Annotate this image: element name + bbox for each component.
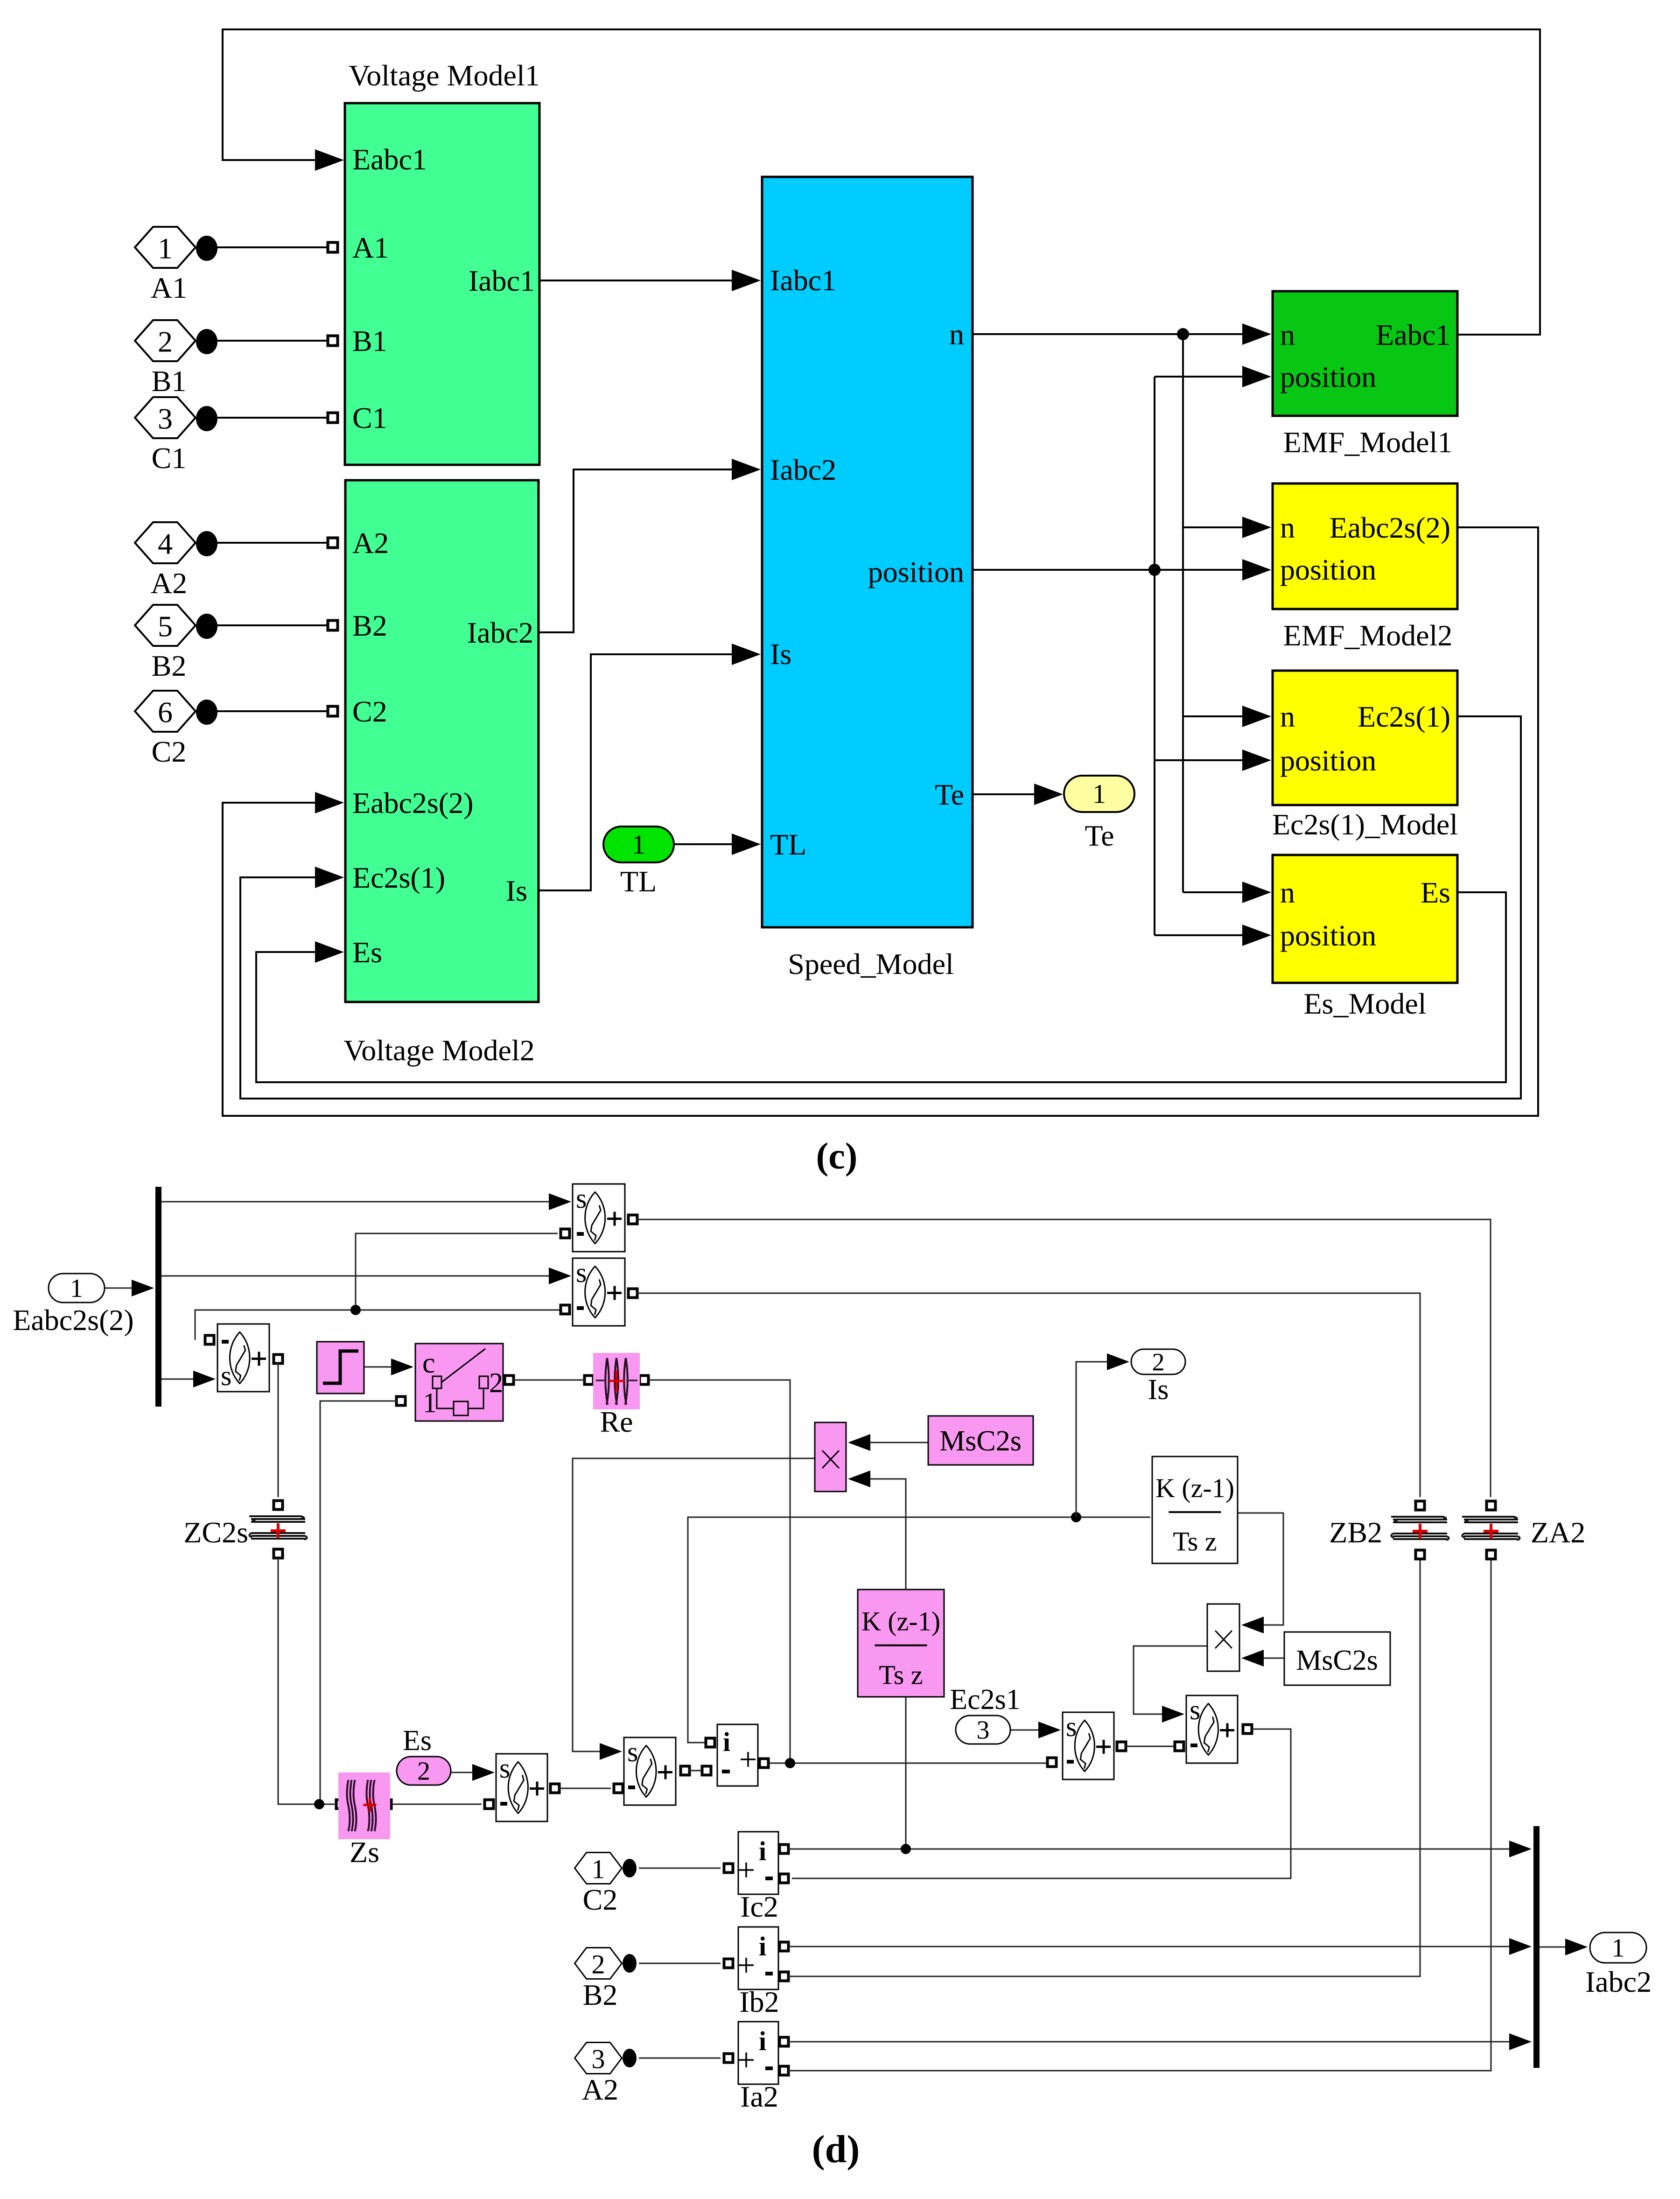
svg-text:Es: Es	[403, 1725, 432, 1757]
svg-text:Ic2: Ic2	[740, 1890, 778, 1923]
svg-text:Ec2s(1): Ec2s(1)	[1358, 700, 1450, 733]
svg-text:ZA2: ZA2	[1531, 1516, 1585, 1549]
wire: branch up to Is outport oval	[1076, 1362, 1110, 1517]
wire: Ia2 current to mux	[780, 2038, 789, 2046]
inport 2 (B1) hexagon	[135, 320, 196, 361]
svg-text:Iabc2: Iabc2	[770, 453, 836, 486]
svg-text:4: 4	[158, 527, 173, 560]
svg-text:TL: TL	[770, 828, 806, 861]
wire: ZC2s bottom to Zs node	[274, 1549, 283, 1558]
source oval: TL (input 1)	[603, 826, 674, 862]
wire: sum S4 output to sum S5 minus	[1117, 1742, 1126, 1751]
svg-text:Is: Is	[1148, 1374, 1169, 1406]
wire: i block current output to Is outport and white K block	[688, 1517, 1150, 1743]
svg-text:Es_Model: Es_Model	[1303, 987, 1426, 1020]
wire: Step to Switch control input	[364, 1366, 394, 1368]
svg-text:3: 3	[592, 2044, 605, 2074]
svg-text:1: 1	[423, 1387, 437, 1418]
wire: Re output down to current node	[640, 1376, 649, 1385]
wire: Ec2s(1) feedback from Ec2s(1)_Model to Voltage Model2	[240, 716, 1521, 1099]
wire: Ib2 minus terminal to ZB2 bottom	[780, 1972, 789, 1981]
svg-text:s: s	[1066, 1711, 1077, 1742]
svg-text:Iabc2: Iabc2	[1585, 1965, 1652, 1998]
svg-text:s: s	[576, 1257, 587, 1288]
svg-text:2: 2	[417, 1757, 430, 1786]
svg-text:2: 2	[158, 325, 173, 358]
current measurement Ia2	[738, 2022, 778, 2084]
block: Speed_Model subsystem	[762, 177, 973, 927]
demux bar	[155, 1187, 161, 1407]
svg-text:5: 5	[158, 610, 173, 643]
wire: demux phase c to sum S3	[161, 1379, 197, 1380]
svg-text:Iabc1: Iabc1	[469, 264, 535, 297]
gain MsC2s (white)	[1284, 1632, 1390, 1685]
wire: demux phase b to sum S2	[161, 1275, 551, 1277]
svg-text:n: n	[1280, 511, 1295, 544]
wire: demux phase a to sum S1	[161, 1201, 551, 1203]
svg-text:A1: A1	[352, 231, 389, 264]
inport 6 (C2) hexagon	[135, 691, 196, 732]
svg-text:B1: B1	[152, 364, 187, 398]
svg-text:Eabc1: Eabc1	[1376, 318, 1450, 351]
wire: n from Speed_Model to EMF model n inputs	[973, 333, 1248, 335]
svg-text:EMF_Model2: EMF_Model2	[1283, 619, 1453, 652]
svg-text:Is: Is	[506, 874, 527, 907]
svg-text:C2: C2	[152, 735, 187, 768]
svg-text:1: 1	[158, 232, 173, 265]
Switch block	[415, 1344, 503, 1421]
svg-text:Ec2s(1): Ec2s(1)	[352, 861, 445, 894]
block: Voltage Model1 subsystem	[345, 103, 539, 465]
sum S5	[1186, 1695, 1238, 1763]
svg-text:A2: A2	[151, 567, 187, 600]
outport oval 1 Iabc2	[1590, 1933, 1646, 1963]
inport 3 (C1) hexagon	[135, 397, 196, 438]
wire: node row through i block plus to sum S4 minus	[768, 1763, 1048, 1764]
outport oval 2 Is	[1131, 1349, 1185, 1374]
wire: Iabc2 from Voltage Model2 to Speed_Model	[539, 469, 737, 632]
svg-text:i: i	[759, 1931, 766, 1961]
svg-text:3: 3	[158, 402, 173, 435]
svg-text:position: position	[1280, 919, 1376, 952]
wire: inport 2 (B1) to Voltage Model1 B1	[212, 340, 329, 342]
discrete derivative K(z-1)/Tsz (white)	[1152, 1457, 1238, 1563]
wire: Switch output 2 to Re	[505, 1376, 514, 1385]
wire: Ic2 current to mux	[780, 1845, 789, 1854]
sum S1	[573, 1184, 625, 1252]
svg-text:Zs: Zs	[350, 1835, 379, 1869]
svg-text:6: 6	[158, 696, 173, 729]
wire: Eabc2s(2) feedback from EMF_Model2 to Voltage Model2	[223, 527, 1538, 1116]
junction: Ic2 current branch	[901, 1844, 911, 1854]
inport oval 1 Eabc2s(2)	[49, 1274, 105, 1303]
product P1 (pink multiply)	[815, 1422, 846, 1492]
svg-text:1: 1	[592, 1854, 605, 1884]
svg-text:position: position	[868, 555, 964, 588]
junction: Zs node	[314, 1799, 324, 1809]
inport 5 (B2) hexagon	[135, 605, 196, 646]
svg-text:Es: Es	[352, 936, 382, 969]
wire: Is from Voltage Model2 to Speed_Model	[539, 654, 737, 890]
svg-text:A2: A2	[582, 2073, 618, 2106]
node: connection dot at inport 5	[196, 614, 217, 639]
svg-text:C2: C2	[352, 695, 387, 728]
node: connection dot at inport 4	[196, 531, 217, 556]
svg-text:EMF_Model1: EMF_Model1	[1283, 426, 1453, 459]
svg-text:A1: A1	[151, 271, 187, 304]
wire: TL source oval to Speed_Model TL	[674, 843, 737, 845]
wire: neutral net to minus inputs of sums S1 S2 S3	[195, 1310, 561, 1340]
wire: Es oval to sum Ses	[451, 1772, 477, 1773]
svg-text:B2: B2	[352, 609, 387, 642]
svg-text:1: 1	[70, 1274, 83, 1303]
junction: current signal branch to Is outport	[1071, 1512, 1081, 1522]
wire: Ia2 minus terminal to ZA2 bottom	[780, 2066, 789, 2075]
sum S2	[573, 1258, 625, 1326]
inport 4 (A2) hexagon	[135, 522, 196, 563]
svg-text:Iabc1: Iabc1	[770, 264, 836, 297]
wire: hexagon C2 to Ic2	[639, 1868, 721, 1869]
wire: product P1 output to sum S6 input	[573, 1458, 815, 1751]
wire: product P2 output to sum S5 input	[1134, 1646, 1207, 1714]
svg-text:Ec2s1: Ec2s1	[950, 1684, 1021, 1716]
svg-text:s: s	[1190, 1695, 1200, 1725]
current measurement Ic2	[738, 1832, 778, 1894]
wire: Ec2s1 inport 3 to sum S4	[1010, 1730, 1043, 1731]
svg-text:Eabc1: Eabc1	[352, 143, 427, 176]
block: Es_Model subsystem	[1273, 855, 1457, 983]
svg-text:Re: Re	[600, 1405, 633, 1438]
wire: Iabc1 from Voltage Model1 to Speed_Model	[539, 280, 737, 281]
outport oval: Te (output 1)	[1064, 776, 1134, 812]
svg-text:ZC2s: ZC2s	[183, 1516, 248, 1549]
wire: Ic2 current to pink K(z-1)/Tsz input	[905, 1697, 907, 1849]
svg-text:position: position	[1280, 360, 1376, 393]
wire: inport 6 (C2) to Voltage Model2 C2	[212, 710, 329, 712]
wire: Switch data input 1 from Zs node	[397, 1397, 406, 1406]
svg-text:Eabc2s(2): Eabc2s(2)	[13, 1303, 133, 1337]
hexagon inport 3 A2	[575, 2043, 622, 2074]
svg-text:2: 2	[592, 1949, 605, 1979]
svg-text:(d): (d)	[812, 2128, 860, 2171]
svg-text:2: 2	[1152, 1348, 1165, 1376]
svg-text:Iabc2: Iabc2	[467, 616, 533, 649]
ZA2 coil	[1487, 1501, 1496, 1510]
svg-text:MsC2s: MsC2s	[939, 1425, 1022, 1457]
wire: hexagon B2 to Ib2	[639, 1963, 721, 1964]
wire: inport 1 (A1) to Voltage Model1 A1	[212, 246, 329, 248]
hexagon inport 1 C2	[575, 1853, 622, 1884]
svg-text:s: s	[499, 1753, 510, 1784]
discrete derivative K(z-1)/Tsz (pink)	[858, 1590, 944, 1697]
wire: MsC2s gain to product P1	[867, 1442, 928, 1443]
svg-text:Eabc2s(2): Eabc2s(2)	[352, 786, 473, 819]
svg-text:(c): (c)	[816, 1136, 858, 1177]
node: connection dot at inport 3	[196, 406, 217, 431]
wire: sum S5 output to Ic2 minus terminal	[1243, 1725, 1252, 1734]
node: connection dot at inport 6	[196, 700, 217, 725]
node: dot at B2 inport	[623, 1954, 637, 1973]
sum S4	[1063, 1712, 1114, 1779]
wire: sum S3 output to ZC2s coil	[274, 1355, 283, 1364]
wire: sum S1 output to ZA2 coil	[629, 1215, 637, 1224]
inport 1 (A1) hexagon	[135, 227, 196, 268]
block: EMF_Model2 subsystem	[1273, 483, 1457, 609]
junction: position wire branch	[1148, 564, 1161, 576]
sum Ses	[496, 1754, 547, 1821]
wire: Te from Speed_Model to outport Te	[973, 793, 1041, 795]
mux bar	[1533, 1826, 1540, 2068]
wire: inport 5 (B2) to Voltage Model2 B2	[212, 624, 329, 626]
wire: Eabc1 feedback from EMF_Model1 output to Voltage Model1 Eabc1 input	[223, 29, 1540, 335]
hexagon inport 2 B2	[575, 1948, 622, 1979]
svg-text:c: c	[422, 1347, 435, 1379]
svg-text:B2: B2	[583, 1978, 618, 2011]
svg-text:Ts z: Ts z	[1173, 1527, 1217, 1557]
svg-text:s: s	[627, 1737, 638, 1767]
node: connection dot at inport 1	[196, 236, 217, 261]
wire: sum Ses output to sum S6 minus	[551, 1784, 560, 1793]
wire: white K block output to product P2	[1238, 1513, 1283, 1625]
svg-text:Speed_Model: Speed_Model	[788, 947, 954, 980]
svg-text:A2: A2	[352, 526, 389, 560]
svg-text:i: i	[759, 1836, 766, 1866]
wire: inport 4 (A2) to Voltage Model2 A2	[212, 542, 329, 544]
wire: sum S2 output to ZB2 coil	[629, 1289, 637, 1298]
svg-text:Te: Te	[1085, 819, 1114, 852]
sum S6	[624, 1737, 676, 1805]
svg-text:1: 1	[1092, 779, 1106, 809]
svg-text:n: n	[949, 318, 964, 351]
svg-text:i: i	[759, 2026, 766, 2056]
svg-text:C2: C2	[583, 1883, 618, 1916]
svg-text:n: n	[1280, 700, 1295, 733]
svg-text:Ia2: Ia2	[740, 2080, 778, 2113]
wire: Es feedback from Es_Model to Voltage Model2	[256, 892, 1506, 1082]
gain MsC2s (pink)	[928, 1416, 1033, 1465]
svg-text:Is: Is	[770, 637, 791, 671]
svg-text:MsC2s: MsC2s	[1296, 1645, 1378, 1676]
Zs impedance (pink)	[338, 1772, 390, 1839]
svg-text:n: n	[1280, 318, 1295, 351]
svg-text:Ib2: Ib2	[739, 1985, 779, 2018]
Re impedance block	[593, 1353, 640, 1409]
wire: Ib2 current to mux	[780, 1942, 789, 1951]
block: EMF_Model1 subsystem	[1273, 291, 1457, 416]
current measurement block i (middle)	[717, 1724, 758, 1786]
wire: position from Speed_Model to EMF model position inputs	[973, 569, 1248, 571]
node: connection dot at inport 2	[196, 329, 217, 354]
svg-text:1: 1	[1612, 1934, 1625, 1963]
svg-text:position: position	[1280, 553, 1376, 586]
svg-text:C1: C1	[152, 441, 187, 475]
svg-text:s: s	[221, 1360, 231, 1391]
svg-text:Voltage Model2: Voltage Model2	[343, 1034, 534, 1067]
junction: neutral net branch	[350, 1305, 361, 1315]
block: Ec2s(1)_Model subsystem	[1273, 671, 1457, 805]
svg-text:Ts z: Ts z	[879, 1660, 923, 1690]
wire: hexagon A2 to Ia2	[639, 2058, 721, 2059]
wire: Zs to sum Ses minus	[383, 1800, 392, 1809]
node: dot at A2 inport	[623, 2049, 637, 2067]
product P2 (white multiply)	[1207, 1604, 1239, 1671]
svg-text:s: s	[576, 1183, 587, 1214]
junction: n wire branch	[1177, 328, 1189, 340]
svg-text:K (z-1): K (z-1)	[861, 1606, 940, 1636]
svg-text:i: i	[723, 1727, 730, 1757]
wire: sum S6 output to i block minus terminal	[681, 1766, 690, 1775]
svg-text:2: 2	[489, 1367, 503, 1398]
block: Voltage Model2 subsystem	[345, 480, 539, 1002]
svg-text:n: n	[1280, 876, 1295, 909]
svg-text:B2: B2	[152, 649, 187, 682]
svg-text:Ec2s(1)_Model: Ec2s(1)_Model	[1272, 808, 1458, 841]
current measurement Ib2	[738, 1927, 778, 1989]
wire: white MsC2s to product P2	[1260, 1658, 1284, 1659]
Step block	[317, 1342, 364, 1394]
svg-text:K (z-1): K (z-1)	[1155, 1473, 1234, 1503]
svg-text:3: 3	[977, 1716, 990, 1745]
junction: Re net T junction	[785, 1758, 795, 1768]
svg-text:Te: Te	[935, 778, 964, 811]
wire: Eabc2s(2) inport to demux	[105, 1288, 136, 1289]
ZC2s coil	[274, 1501, 283, 1510]
svg-text:ZB2: ZB2	[1329, 1516, 1382, 1549]
wire: K(z-1)/Tsz (pink) output to product P1	[867, 1479, 906, 1590]
svg-text:C1: C1	[352, 401, 387, 434]
svg-text:position: position	[1280, 744, 1376, 777]
wire: inport 3 (C1) to Voltage Model1 C1	[212, 417, 329, 419]
sum S3	[217, 1324, 269, 1392]
svg-text:TL: TL	[620, 865, 657, 898]
svg-text:1: 1	[632, 829, 645, 860]
svg-text:Voltage Model1: Voltage Model1	[349, 59, 539, 92]
ZB2 coil	[1416, 1501, 1425, 1510]
svg-text:B1: B1	[352, 324, 387, 357]
svg-text:Es: Es	[1421, 876, 1450, 909]
wire: mux output to Iabc2 outport	[1540, 1947, 1569, 1948]
node: dot at C2 inport	[623, 1859, 637, 1877]
svg-text:Eabc2s(2): Eabc2s(2)	[1330, 511, 1450, 544]
